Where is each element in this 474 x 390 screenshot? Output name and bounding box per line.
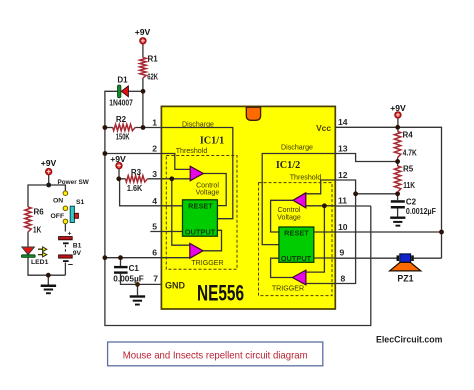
wire +9V left to T junction	[48, 175, 50, 185]
svg-text:IC1/1: IC1/1	[200, 135, 224, 146]
junction node D1-R1	[141, 89, 146, 94]
svg-text:D1: D1	[117, 76, 128, 85]
op-amp comparator IC1/2 control voltage	[293, 193, 306, 208]
junction R5 bottom	[395, 191, 400, 196]
wire +9V right terminal to rail	[397, 118, 399, 132]
svg-text:Mouse and Insects repellent ci: Mouse and Insects repellent circuit diag…	[123, 351, 308, 362]
svg-text:R4: R4	[403, 131, 414, 140]
svg-text:9: 9	[340, 247, 345, 257]
svg-text:1.6K: 1.6K	[127, 184, 143, 193]
op-amp comparator IC1/2 trigger	[292, 270, 306, 285]
junction C1 ground	[135, 282, 140, 287]
junction R4 R5	[395, 159, 400, 164]
junction C1 top	[118, 255, 123, 260]
+9V terminal top	[135, 27, 151, 44]
junction node A R2 left	[103, 125, 108, 130]
wire pin1 internal discharge	[161, 128, 232, 219]
resistor R6 1K	[25, 207, 31, 232]
+9V terminal right	[390, 103, 406, 118]
svg-text:+9V: +9V	[135, 27, 151, 37]
junction +9V right pin14	[395, 125, 400, 130]
wire R3 junction down to pin4	[120, 179, 162, 206]
svg-text:C1: C1	[129, 264, 140, 273]
svg-text:−: −	[68, 260, 73, 270]
wire R2 right to pin1	[135, 127, 161, 129]
wire pin10 to right rail	[335, 231, 441, 233]
wire pin11 internal control voltage	[306, 205, 336, 207]
wire R5 junction link	[356, 193, 398, 195]
wire R1 bottom to D1 junction to pin1	[142, 78, 144, 128]
svg-text:11: 11	[338, 195, 347, 205]
switch S1 slider	[70, 206, 74, 222]
resistor R1 62K	[140, 58, 146, 79]
op-amp comparator IC1/1 control voltage	[190, 166, 203, 180]
junction power switch T	[46, 183, 51, 188]
svg-text:Discharge: Discharge	[182, 120, 214, 128]
wire pin2 to node A	[105, 153, 161, 155]
svg-text:6: 6	[152, 248, 157, 258]
svg-text:13: 13	[338, 143, 348, 153]
LED1 emission arrows	[38, 249, 43, 254]
wire D1 cathode to node A	[105, 91, 371, 325]
svg-text:5: 5	[152, 221, 157, 231]
wire pin6 to node A	[105, 257, 161, 259]
svg-text:OFF: OFF	[51, 213, 65, 220]
wire D1 junction to anode	[128, 90, 143, 92]
svg-text:S1: S1	[76, 199, 85, 206]
svg-text:C2: C2	[406, 198, 417, 207]
wire pin13 internal discharge	[262, 154, 335, 245]
svg-text:R1: R1	[148, 55, 159, 64]
svg-text:Vcc: Vcc	[316, 123, 331, 133]
resistor R5 11K	[394, 166, 400, 192]
switch S1 bottom terminal	[63, 219, 68, 224]
svg-text:Threshold: Threshold	[176, 147, 208, 155]
svg-text:B1: B1	[73, 243, 82, 250]
svg-text:3: 3	[152, 169, 157, 179]
ground symbol under C2	[390, 217, 405, 227]
svg-text:12: 12	[338, 170, 348, 180]
+9V terminal left	[41, 158, 57, 175]
wire T junction to R6	[28, 185, 49, 207]
svg-text:GND: GND	[165, 281, 186, 291]
wire R5 bottom to C2	[397, 192, 399, 200]
wire LED1 to ground rail	[28, 257, 65, 275]
svg-text:Voltage: Voltage	[277, 213, 301, 221]
piezo speaker PZ1	[390, 254, 421, 284]
junction pin10 right rail	[439, 230, 444, 235]
wire node A to R2 left	[105, 127, 113, 129]
wire C2 to ground	[397, 208, 399, 216]
svg-text:10: 10	[338, 222, 348, 232]
wire pin10 internal reset	[314, 231, 336, 233]
wire pin9 to PZ1	[335, 257, 396, 259]
svg-text:1K: 1K	[33, 226, 41, 235]
flip-flop block IC1/2	[279, 227, 314, 263]
wire pin4 internal reset	[161, 205, 182, 207]
wire ground stub C1	[137, 284, 139, 295]
junction node A pin2	[103, 151, 108, 156]
wire R6 to LED1	[27, 232, 29, 247]
wire pin2 internal threshold	[161, 154, 190, 170]
svg-text:62K: 62K	[147, 73, 158, 82]
title banner	[108, 342, 323, 366]
wire trigger1 output to flipflop	[203, 230, 222, 251]
wire ground stub left	[47, 275, 49, 284]
svg-text:7: 7	[153, 274, 158, 284]
IC1/1 dashed box	[166, 156, 237, 270]
wire pin13 to R4 R5 junction	[335, 154, 397, 162]
junction R3 left	[116, 176, 121, 181]
svg-text:0.005µF: 0.005µF	[113, 274, 144, 283]
capacitor C2 0.0012uF	[391, 198, 436, 217]
+9V terminal mid	[110, 154, 126, 168]
svg-text:R6: R6	[34, 208, 45, 217]
svg-text:Discharge: Discharge	[281, 143, 313, 151]
wire switch to battery	[64, 224, 66, 232]
svg-text:9V: 9V	[73, 250, 82, 257]
svg-text:4: 4	[152, 196, 157, 206]
diode D1 1N4007	[109, 76, 133, 108]
wire T junction to switch ON	[49, 185, 66, 191]
junction node R2 right pin1	[141, 125, 146, 130]
IC notch	[246, 107, 260, 120]
capacitor C1 0.005uF	[113, 264, 144, 283]
wire comparator2 output to reset	[271, 200, 294, 232]
wire PZ1 to right rail	[414, 257, 442, 259]
svg-text:RESET: RESET	[188, 201, 213, 210]
junction pin11 internal	[322, 203, 327, 208]
wire pin12 internal threshold	[306, 180, 336, 194]
wire +9V mid to R3 junction	[118, 169, 120, 179]
svg-text:150K: 150K	[116, 132, 130, 141]
wire pin9 internal output	[314, 257, 336, 259]
junction trigger2 net	[353, 191, 358, 196]
svg-text:1N4007: 1N4007	[109, 98, 133, 107]
battery B1 9V	[59, 231, 82, 270]
wire comparator1 output to reset	[203, 174, 226, 206]
switch S1 knob	[74, 213, 78, 218]
switch S1 ON terminal	[63, 191, 68, 196]
svg-text:Threshold: Threshold	[290, 174, 322, 182]
ground symbol under C1	[130, 295, 145, 305]
svg-text:Voltage: Voltage	[196, 189, 220, 197]
switch S1 middle terminal	[63, 206, 68, 211]
op-amp comparator IC1/1 trigger	[190, 243, 203, 258]
wire flipflop2 to trigger2 apex	[271, 258, 293, 277]
wire R4 to R5	[397, 158, 399, 167]
resistor R4 4.7K	[394, 132, 400, 158]
wire pin3 node to trigger comparator	[172, 179, 190, 245]
wire pin11 node to trigger comparator 2	[306, 206, 325, 272]
wire pin6 internal trigger	[161, 257, 189, 259]
resistor R2 150K	[113, 124, 135, 130]
resistor R3 1.6K	[126, 176, 148, 182]
wire C1 top lead	[120, 258, 122, 266]
wire battery minus to ground rail	[64, 262, 66, 275]
svg-text:IC1/2: IC1/2	[276, 160, 300, 171]
junction pin3 internal	[169, 176, 174, 181]
svg-text:NE556: NE556	[197, 281, 244, 306]
svg-text:4.7K: 4.7K	[403, 149, 417, 158]
svg-text:2: 2	[152, 143, 157, 153]
flip-flop block IC1/1	[183, 200, 218, 237]
svg-text:R3: R3	[131, 168, 142, 177]
junction ground rail left	[46, 273, 51, 278]
svg-text:+9V: +9V	[41, 158, 57, 168]
wire pin3 internal control voltage	[161, 178, 190, 180]
svg-text:ON: ON	[53, 198, 63, 205]
IC1/2 dashed box	[259, 183, 333, 296]
wire pin11 to bottom rail	[335, 205, 371, 207]
svg-text:ElecCircuit.com: ElecCircuit.com	[376, 335, 443, 345]
svg-text:1: 1	[152, 118, 157, 128]
wire pin12 down to trigger2 net	[335, 180, 355, 284]
svg-text:RESET: RESET	[284, 228, 309, 237]
wire C1 bottom to pin7	[121, 274, 162, 285]
wire +9V top to R1	[142, 44, 144, 58]
IC body NE556	[161, 106, 335, 309]
ground symbol left	[41, 285, 56, 295]
svg-text:R5: R5	[403, 165, 414, 174]
svg-text:LED1: LED1	[31, 259, 49, 266]
junction node A pin6	[103, 255, 108, 260]
svg-text:OUTPUT: OUTPUT	[281, 254, 312, 263]
wire pin8 internal trigger	[306, 283, 335, 285]
svg-text:TRIGGER: TRIGGER	[191, 259, 223, 267]
svg-text:OUTPUT: OUTPUT	[185, 227, 216, 236]
wire pin14 to +9V right and right rail	[335, 127, 441, 258]
svg-text:Power SW: Power SW	[58, 179, 90, 186]
svg-text:TRIGGER: TRIGGER	[272, 285, 304, 293]
svg-text:14: 14	[338, 117, 348, 127]
svg-text:PZ1: PZ1	[397, 274, 413, 284]
svg-text:11K: 11K	[403, 181, 415, 190]
LED LED1	[21, 247, 48, 266]
svg-text:8: 8	[341, 274, 346, 284]
wire pin5 internal output	[150, 231, 182, 233]
svg-text:0.0012µF: 0.0012µF	[406, 207, 436, 216]
svg-text:R2: R2	[116, 115, 127, 124]
wire R3 junction leads	[119, 178, 162, 180]
